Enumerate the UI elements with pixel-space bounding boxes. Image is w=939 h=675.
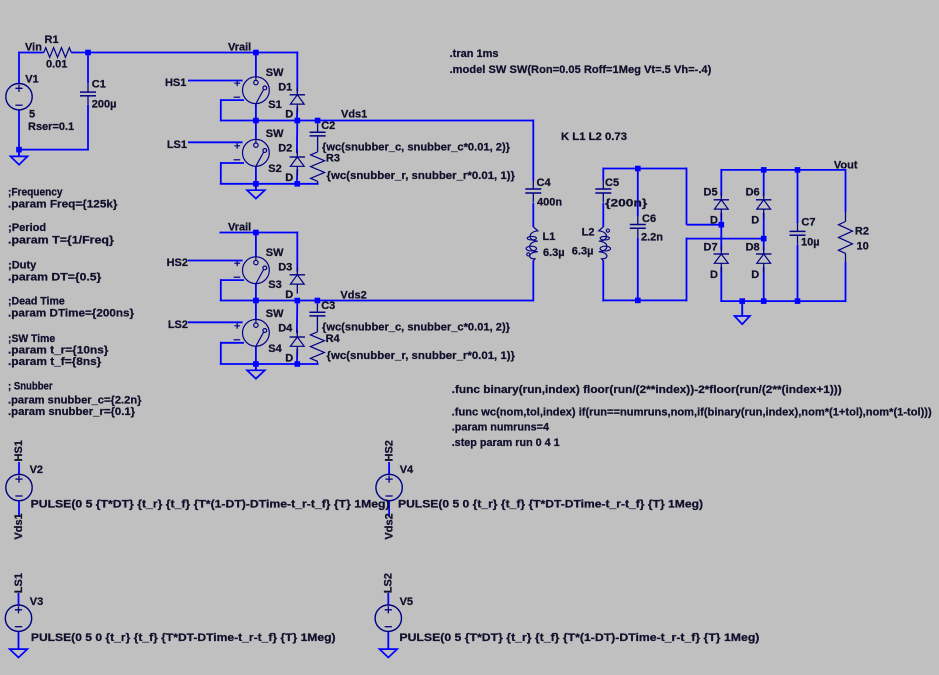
svg-text:C6: C6 [642,213,656,225]
svg-text:Vds1: Vds1 [13,513,25,539]
svg-text:{wc(snubber_r, snubber_r*0.01,: {wc(snubber_r, snubber_r*0.01, 1)} [327,350,516,362]
svg-text:6.3µ: 6.3µ [543,247,565,259]
svg-text:HS1: HS1 [165,77,186,89]
svg-text:Vds1: Vds1 [341,109,367,121]
svg-text:HS2: HS2 [383,440,395,461]
svg-text:PULSE(0 5 {T*DT} {t_r} {t_f} {: PULSE(0 5 {T*DT} {t_r} {t_f} {T*(1-DT)-D… [399,632,759,644]
svg-text:D: D [710,269,718,281]
svg-text:{200n}: {200n} [605,197,648,209]
svg-text:SW: SW [266,128,284,140]
svg-text:LS2: LS2 [168,319,188,331]
svg-text:.param DTime={200ns}: .param DTime={200ns} [8,308,135,320]
svg-text:; Snubber: ; Snubber [8,381,53,393]
svg-text:D: D [710,214,718,226]
svg-text:D: D [751,215,759,227]
svg-text:Vrail: Vrail [228,42,251,54]
svg-text:L1: L1 [543,231,556,243]
svg-text:.param numruns=4: .param numruns=4 [452,421,550,433]
svg-text:HS1: HS1 [13,440,25,461]
svg-text:;SW Time: ;SW Time [8,333,55,345]
svg-text:{wc(snubber_r, snubber_r*0.01,: {wc(snubber_r, snubber_r*0.01, 1)} [327,170,516,182]
svg-text:Rser=0.1: Rser=0.1 [28,121,74,133]
svg-text:.param t_r={10ns}: .param t_r={10ns} [8,345,109,357]
svg-text:LS2: LS2 [383,573,395,593]
svg-text:R1: R1 [45,34,59,46]
svg-text:.step param run 0 4 1: .step param run 0 4 1 [452,437,560,449]
svg-text:;Period: ;Period [8,222,46,234]
svg-text:;Duty: ;Duty [8,259,37,271]
svg-text:D8: D8 [746,242,760,254]
svg-text:.tran 1ms: .tran 1ms [450,48,499,60]
svg-text:Vrail: Vrail [228,222,251,234]
svg-text:R3: R3 [326,153,340,165]
svg-text:V2: V2 [30,464,43,476]
svg-text:10: 10 [857,241,869,253]
svg-text:D: D [285,109,293,121]
svg-text:S2: S2 [268,163,281,175]
svg-text:D: D [751,269,759,281]
svg-text:PULSE(0 5 0 {t_r} {t_f} {T*DT-: PULSE(0 5 0 {t_r} {t_f} {T*DT-DTime-t_r-… [398,498,703,510]
svg-text:5: 5 [29,108,35,120]
svg-text:2.2n: 2.2n [641,232,663,244]
svg-text:D2: D2 [278,143,292,155]
svg-text:LS1: LS1 [13,573,25,593]
svg-text:0.01: 0.01 [46,58,67,70]
svg-text:K L1 L2 0.73: K L1 L2 0.73 [561,131,627,143]
svg-text:C4: C4 [537,177,552,189]
svg-text:D: D [285,352,293,364]
svg-text:C7: C7 [801,217,815,229]
svg-text:LS1: LS1 [167,139,187,151]
svg-text:R4: R4 [326,333,341,345]
svg-text:SW: SW [266,247,284,259]
svg-text:D: D [285,172,293,184]
svg-text:PULSE(0 5 0 {t_r} {t_f} {T*DT-: PULSE(0 5 0 {t_r} {t_f} {T*DT-DTime-t_r-… [31,632,336,644]
svg-text:L2: L2 [582,227,595,239]
svg-text:SW: SW [266,308,284,320]
svg-text:.param Freq={125k}: .param Freq={125k} [8,199,118,211]
svg-text:.param snubber_r={0.1}: .param snubber_r={0.1} [8,406,136,418]
svg-text:S3: S3 [268,279,281,291]
svg-text:V5: V5 [400,596,413,608]
svg-text:.func binary(run,index) floor(: .func binary(run,index) floor(run/(2**in… [452,384,842,396]
svg-text:D7: D7 [704,242,718,254]
svg-text:D4: D4 [278,323,293,335]
svg-text:D6: D6 [746,187,760,199]
svg-text:Vds2: Vds2 [340,289,366,301]
svg-text:S4: S4 [268,343,282,355]
svg-text:6.3µ: 6.3µ [572,246,594,258]
svg-text:D5: D5 [704,187,718,199]
svg-text:D1: D1 [278,82,292,94]
svg-text:;Dead Time: ;Dead Time [8,296,65,308]
svg-text:V3: V3 [30,596,43,608]
svg-text:C2: C2 [321,120,335,132]
svg-text:{wc(snubber_c, snubber_c*0.01,: {wc(snubber_c, snubber_c*0.01, 2)} [322,141,511,153]
svg-text:HS2: HS2 [167,257,188,269]
svg-text:Vin: Vin [25,42,42,54]
svg-text:Vout: Vout [834,160,858,172]
svg-text:V4: V4 [400,464,414,476]
svg-text:;Frequency: ;Frequency [8,186,63,198]
svg-text:V1: V1 [25,74,38,86]
svg-text:10µ: 10µ [801,237,820,249]
svg-text:C3: C3 [321,300,335,312]
svg-text:.model SW SW(Ron=0.05 Roff=1Me: .model SW SW(Ron=0.05 Roff=1Meg Vt=.5 Vh… [450,64,712,76]
svg-text:SW: SW [266,67,284,79]
svg-text:400n: 400n [537,197,562,209]
svg-text:PULSE(0 5 {T*DT} {t_r} {t_f} {: PULSE(0 5 {T*DT} {t_r} {t_f} {T*(1-DT)-D… [31,498,390,510]
svg-text:R2: R2 [855,226,869,238]
svg-text:.param snubber_c={2.2n}: .param snubber_c={2.2n} [8,395,142,407]
svg-text:Vds2: Vds2 [383,513,395,539]
svg-text:C1: C1 [92,78,106,90]
svg-text:D: D [285,289,293,301]
svg-text:C5: C5 [605,177,619,189]
svg-text:{wc(snubber_c, snubber_c*0.01,: {wc(snubber_c, snubber_c*0.01, 2)} [322,321,511,333]
svg-text:.func wc(nom,tol,index) if(run: .func wc(nom,tol,index) if(run==numruns,… [452,407,932,419]
svg-text:.param T={1/Freq}: .param T={1/Freq} [8,235,115,247]
svg-text:.param t_f={8ns}: .param t_f={8ns} [8,356,102,368]
svg-text:200µ: 200µ [92,99,117,111]
svg-text:S1: S1 [268,99,281,111]
svg-text:D3: D3 [278,262,292,274]
svg-text:.param DT={0.5}: .param DT={0.5} [8,272,102,284]
